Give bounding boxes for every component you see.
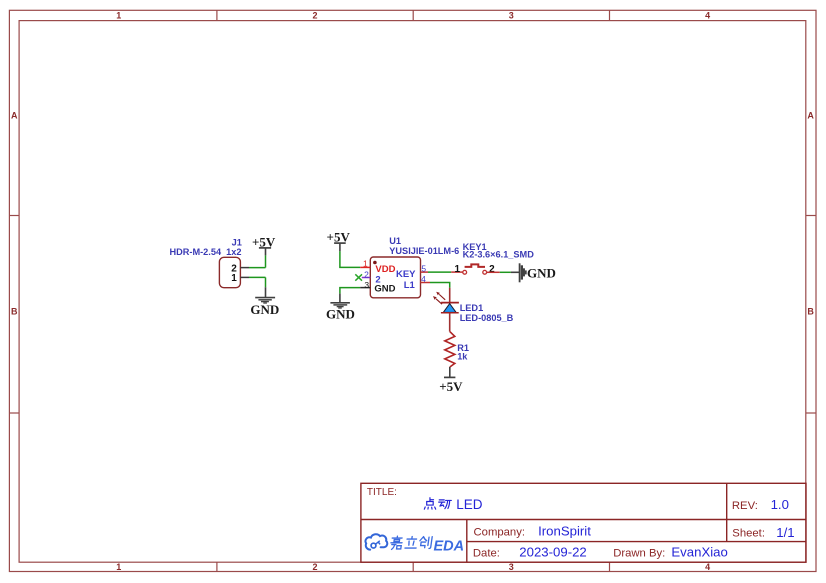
wire U1 pin3 to GND	[340, 288, 360, 294]
svg-text:3: 3	[509, 11, 514, 21]
power +5V (J1)	[252, 235, 276, 268]
wire U1 pin5 to KEY1	[428, 271, 451, 273]
svg-text:3: 3	[364, 280, 369, 290]
svg-text:1: 1	[116, 11, 121, 21]
char dong	[439, 500, 452, 509]
wire +5V to U1 pin1	[340, 251, 360, 267]
svg-text:1: 1	[231, 273, 237, 284]
LED LED1	[433, 292, 459, 313]
title block frame	[361, 483, 806, 562]
svg-text:4: 4	[705, 562, 710, 572]
ground GND (KEY1, rotated)	[511, 263, 556, 282]
wire LED to R1	[449, 313, 451, 332]
J1 pin 2 stub	[240, 267, 249, 269]
svg-text:1.0: 1.0	[771, 497, 789, 512]
wire pin4 drop to LED	[449, 288, 451, 303]
svg-text:IronSpirit: IronSpirit	[538, 524, 591, 539]
svg-text:EvanXiao: EvanXiao	[671, 545, 727, 560]
svg-text:Date:: Date:	[473, 547, 500, 559]
svg-text:5: 5	[421, 263, 426, 273]
svg-text:3: 3	[509, 562, 514, 572]
svg-text:J1: J1	[232, 237, 242, 247]
svg-text:VDD: VDD	[375, 264, 395, 275]
svg-text:1: 1	[116, 562, 121, 572]
connector J1	[170, 237, 242, 287]
char jia	[390, 536, 403, 549]
svg-text:B: B	[11, 307, 18, 317]
svg-text:REV:: REV:	[732, 500, 758, 512]
svg-text:1: 1	[363, 258, 368, 268]
wire KEY1 to GND	[500, 271, 511, 273]
svg-text:Company:: Company:	[474, 526, 526, 538]
svg-text:A: A	[807, 111, 814, 121]
svg-text:2: 2	[489, 264, 495, 275]
svg-text:+5V: +5V	[439, 379, 463, 394]
svg-text:4: 4	[421, 274, 426, 284]
svg-text:GND: GND	[250, 302, 279, 317]
U1 pin 2 (no connect)	[355, 269, 370, 280]
wire J1 pin1 to GND	[249, 276, 266, 278]
svg-text:Drawn By:: Drawn By:	[613, 547, 665, 559]
switch KEY1	[451, 264, 500, 275]
wire U1 pin4 to LED	[430, 283, 450, 288]
svg-text:B: B	[807, 307, 814, 317]
svg-text:LED1: LED1	[460, 303, 484, 313]
svg-text:TITLE:: TITLE:	[367, 487, 397, 498]
svg-text:GND: GND	[374, 284, 395, 295]
svg-text:U1: U1	[389, 236, 401, 246]
svg-text:1/1: 1/1	[776, 525, 794, 540]
J1 pin 1 stub	[240, 276, 249, 278]
wire J1 pin2 to +5V	[249, 267, 266, 269]
svg-text:EDA: EDA	[434, 538, 465, 554]
svg-text:L1: L1	[404, 280, 416, 291]
U1 pin 5	[421, 263, 429, 273]
svg-text:YUSIJIE-01LM-6: YUSIJIE-01LM-6	[389, 246, 459, 256]
char dian	[424, 498, 435, 509]
svg-text:KEY: KEY	[396, 269, 416, 280]
svg-text:4: 4	[705, 11, 710, 21]
svg-text:2: 2	[364, 269, 369, 279]
logo cloud icon	[365, 534, 387, 549]
svg-text:1: 1	[455, 264, 461, 275]
svg-text:K2-3.6×6.1_SMD: K2-3.6×6.1_SMD	[463, 249, 535, 259]
U1 pin 1	[360, 258, 370, 268]
IC U1	[370, 257, 420, 298]
svg-text:2: 2	[312, 11, 317, 21]
svg-text:1k: 1k	[457, 352, 468, 362]
resistor R1	[445, 332, 469, 367]
ground GND (U1)	[326, 294, 355, 322]
svg-text:2023-09-22: 2023-09-22	[519, 545, 586, 560]
svg-text:HDR-M-2.54 1x2: HDR-M-2.54 1x2	[170, 247, 242, 257]
svg-text:GND: GND	[326, 307, 355, 322]
svg-text:LED: LED	[456, 497, 483, 512]
svg-text:GND: GND	[527, 266, 556, 281]
logo text 嘉立创EDA	[390, 536, 432, 549]
power +5V (U1)	[327, 230, 351, 252]
title text 点动 LED	[424, 498, 451, 509]
svg-text:LED-0805_B: LED-0805_B	[460, 313, 514, 323]
U1 pin 3	[360, 280, 370, 290]
power +5V (R1, inverted)	[439, 367, 463, 394]
U1 pin 4	[421, 274, 431, 284]
char chuang	[419, 537, 432, 549]
svg-text:A: A	[11, 111, 18, 121]
char li	[405, 537, 418, 549]
svg-text:2: 2	[312, 562, 317, 572]
ground GND (J1)	[250, 277, 279, 316]
svg-text:Sheet:: Sheet:	[732, 528, 765, 540]
